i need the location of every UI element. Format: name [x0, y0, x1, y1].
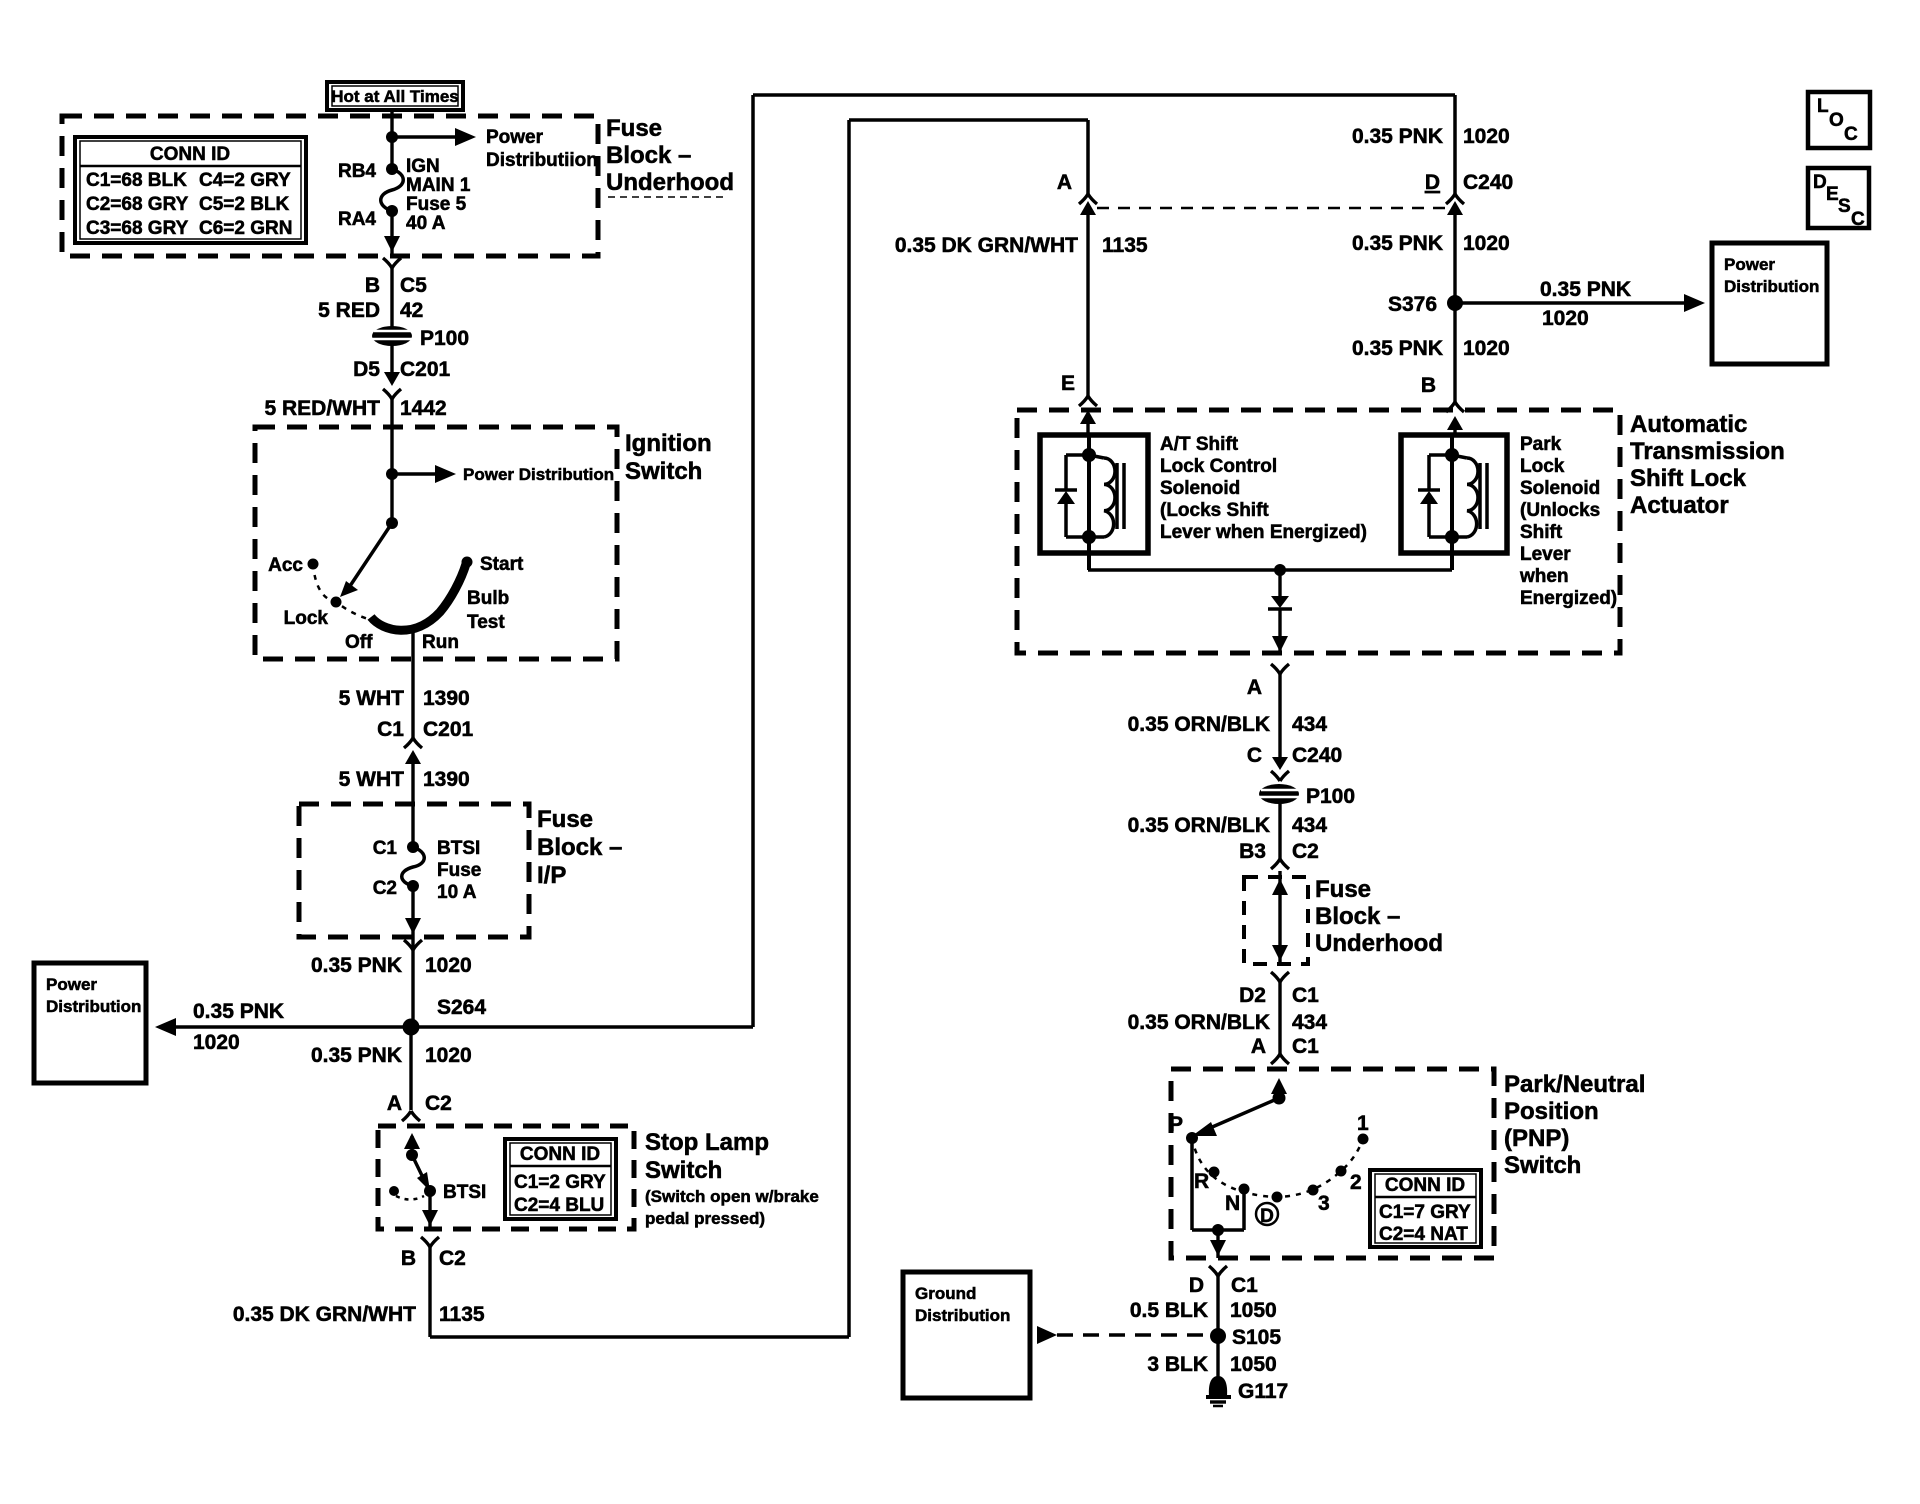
svg-text:0.35 ORN/BLK: 0.35 ORN/BLK: [1128, 713, 1270, 736]
fuse block IP box: [299, 804, 622, 937]
node N: [1225, 1184, 1250, 1216]
svg-text:C2=4 BLU: C2=4 BLU: [514, 1195, 604, 1216]
node 2: [1336, 1166, 1362, 1195]
svg-text:0.35 PNK: 0.35 PNK: [1540, 278, 1631, 301]
svg-text:I/P: I/P: [537, 862, 566, 889]
svg-text:Solenoid: Solenoid: [1160, 478, 1240, 499]
svg-text:Distribution: Distribution: [46, 997, 141, 1016]
svg-text:434: 434: [1292, 814, 1327, 837]
svg-text:Fuse: Fuse: [1315, 876, 1371, 903]
wire ignition output 5 WHT 1390: [339, 630, 474, 741]
svg-text:(Unlocks: (Unlocks: [1520, 500, 1600, 521]
svg-text:1390: 1390: [423, 687, 470, 710]
wire ground distribution dashed: [1037, 1326, 1211, 1344]
svg-text:Lever: Lever: [1520, 544, 1571, 565]
svg-text:40 A: 40 A: [406, 213, 446, 234]
connector C1 pin D ground: [1130, 1266, 1277, 1377]
wire power distribution branch underhood: [392, 127, 598, 171]
svg-text:0.35 ORN/BLK: 0.35 ORN/BLK: [1128, 814, 1270, 837]
node Hot at All Times: [327, 82, 463, 110]
svg-text:Position: Position: [1504, 1098, 1599, 1125]
svg-text:1390: 1390: [423, 768, 470, 791]
svg-text:Lever when Energized): Lever when Energized): [1160, 522, 1367, 543]
label park lock solenoid: [1519, 434, 1617, 609]
box DESC: [1808, 168, 1869, 230]
svg-text:C240: C240: [1463, 171, 1513, 194]
solenoid U2 park lock: [1401, 435, 1507, 570]
svg-text:A/T Shift: A/T Shift: [1160, 434, 1239, 455]
svg-text:D5: D5: [353, 358, 380, 381]
svg-text:1050: 1050: [1230, 1353, 1277, 1376]
node 3: [1308, 1185, 1330, 1216]
svg-text:Power: Power: [1724, 255, 1775, 274]
svg-text:5 WHT: 5 WHT: [339, 768, 405, 791]
svg-text:0.35 PNK: 0.35 PNK: [1352, 125, 1443, 148]
svg-text:CONN ID: CONN ID: [1385, 1175, 1465, 1196]
connector C240 pin D: [1352, 125, 1513, 215]
svg-text:C6=2 GRN: C6=2 GRN: [199, 218, 292, 239]
connector C201 pin C1: [339, 738, 470, 804]
wire fuse output: [384, 211, 400, 256]
wire P and N to output: [1192, 1138, 1244, 1258]
svg-text:Stop Lamp: Stop Lamp: [645, 1129, 769, 1156]
svg-text:0.5 BLK: 0.5 BLK: [1130, 1299, 1208, 1322]
svg-text:0.35 PNK: 0.35 PNK: [311, 1044, 402, 1067]
wire S376 to power distribution: [1455, 278, 1705, 330]
svg-text:D: D: [1813, 172, 1827, 193]
wire S376 down to B: [1352, 337, 1510, 397]
svg-text:Block –: Block –: [1315, 903, 1400, 930]
ignition switch box: [255, 427, 712, 659]
svg-text:5 RED: 5 RED: [318, 299, 380, 322]
svg-text:BTSI: BTSI: [437, 838, 480, 859]
connector pin E actuator: [1079, 396, 1097, 436]
connector C5 pin B: [318, 258, 427, 332]
svg-text:2: 2: [1350, 1171, 1362, 1194]
node D circled: [1256, 1192, 1283, 1228]
ground distribution box: [903, 1272, 1030, 1398]
connector C1 pin D2: [1128, 972, 1328, 1058]
svg-text:D: D: [1260, 1206, 1274, 1227]
connector C2 pin B stop lamp: [233, 1237, 485, 1337]
svg-text:1020: 1020: [1542, 307, 1589, 330]
svg-text:S: S: [1838, 196, 1851, 217]
label A/T shift lock control solenoid: [1160, 434, 1367, 543]
svg-text:1020: 1020: [1463, 337, 1510, 360]
svg-text:Solenoid: Solenoid: [1520, 478, 1600, 499]
wire 1135 run to right riser: [430, 120, 1088, 1337]
svg-text:0.35 PNK: 0.35 PNK: [1352, 337, 1443, 360]
svg-text:Shift: Shift: [1520, 522, 1563, 543]
svg-text:1020: 1020: [193, 1031, 240, 1054]
wire through fuse block small: [1272, 871, 1288, 963]
svg-text:RA4: RA4: [338, 209, 376, 230]
wire P100 to fuse block 434: [1128, 803, 1328, 863]
svg-text:S376: S376: [1388, 293, 1437, 316]
ignition switch wiper: [340, 517, 398, 597]
svg-text:Power: Power: [46, 975, 97, 994]
wire S264 to left power distribution: [155, 1000, 411, 1054]
svg-text:C1=2 GRY: C1=2 GRY: [514, 1172, 606, 1193]
svg-text:IGN: IGN: [406, 156, 440, 177]
fuse BTSI 10A: [373, 804, 482, 903]
wire C240 dashed connector line: [1097, 207, 1445, 210]
svg-text:C1: C1: [377, 718, 404, 741]
node Start: [462, 554, 524, 575]
svg-text:Energized): Energized): [1520, 588, 1617, 609]
svg-text:P100: P100: [420, 327, 469, 350]
svg-text:Power: Power: [486, 127, 544, 148]
ground G117: [1206, 1376, 1288, 1406]
table CONN ID stop lamp: [505, 1139, 616, 1219]
svg-text:(Switch open w/brake: (Switch open w/brake: [645, 1187, 819, 1206]
svg-text:Ignition: Ignition: [625, 430, 712, 457]
svg-text:Test: Test: [467, 612, 505, 633]
connector C1 pin A pnp: [1271, 1054, 1289, 1064]
svg-text:3 BLK: 3 BLK: [1147, 1353, 1208, 1376]
wire hot feed into fuse block: [386, 109, 398, 169]
svg-text:Fuse: Fuse: [606, 115, 662, 142]
svg-text:434: 434: [1292, 713, 1327, 736]
svg-text:B: B: [401, 1247, 416, 1270]
svg-text:Fuse: Fuse: [437, 860, 481, 881]
svg-text:B: B: [1421, 374, 1436, 397]
svg-text:Underhood: Underhood: [1315, 930, 1443, 957]
svg-text:CONN ID: CONN ID: [150, 144, 230, 165]
svg-text:C: C: [1844, 124, 1858, 145]
svg-text:S105: S105: [1232, 1326, 1281, 1349]
stop lamp switch contacts: [389, 1133, 486, 1203]
fuse block underhood box: [62, 115, 734, 256]
svg-text:RB4: RB4: [338, 161, 376, 182]
svg-text:C1: C1: [1292, 1035, 1319, 1058]
node S376: [1388, 293, 1463, 316]
svg-text:Acc: Acc: [268, 555, 303, 576]
connector P100 right: [1259, 784, 1355, 808]
fuse IGN MAIN 1 Fuse 5 40 A: [338, 156, 471, 234]
svg-text:P: P: [1169, 1113, 1183, 1136]
svg-text:A: A: [1247, 676, 1262, 699]
svg-text:Distribution: Distribution: [1724, 277, 1819, 296]
power distribution box left: [34, 963, 146, 1083]
svg-text:C1=7 GRY: C1=7 GRY: [1379, 1202, 1471, 1223]
ignition detent arc dashed: [313, 564, 368, 619]
svg-text:Actuator: Actuator: [1630, 492, 1729, 519]
wire A to E 0.35 DK GRN/WHT 1135: [895, 213, 1148, 396]
svg-text:Lock: Lock: [1520, 456, 1565, 477]
node Lock: [284, 597, 342, 630]
svg-text:1: 1: [1357, 1112, 1369, 1135]
svg-text:1020: 1020: [425, 1044, 472, 1067]
svg-text:C4=2 GRY: C4=2 GRY: [199, 170, 291, 191]
svg-text:Distributiion: Distributiion: [486, 150, 598, 171]
svg-text:C3=68 GRY: C3=68 GRY: [86, 218, 189, 239]
svg-text:C5: C5: [400, 274, 427, 297]
node S105: [1147, 1326, 1281, 1376]
svg-text:1020: 1020: [1463, 232, 1510, 255]
table CONN ID pnp: [1370, 1170, 1481, 1247]
label Bulb Test: [467, 588, 509, 633]
svg-text:C2: C2: [373, 878, 397, 899]
svg-text:Fuse: Fuse: [537, 806, 593, 833]
node R: [1194, 1167, 1220, 1194]
svg-text:C: C: [1851, 209, 1865, 230]
pnp detent arc dashed: [1192, 1138, 1363, 1197]
svg-text:P100: P100: [1306, 785, 1355, 808]
actuator box: [1017, 410, 1785, 653]
svg-text:Switch: Switch: [625, 458, 702, 485]
svg-text:O: O: [1829, 110, 1844, 131]
svg-text:C1: C1: [1292, 984, 1319, 1007]
node P: [1169, 1113, 1198, 1144]
connector C240 pin C: [1271, 757, 1289, 781]
connector C2 pin B3: [1271, 859, 1289, 869]
svg-text:1050: 1050: [1230, 1299, 1277, 1322]
svg-text:C2: C2: [439, 1247, 466, 1270]
svg-text:D: D: [1189, 1274, 1204, 1297]
svg-text:Off: Off: [345, 632, 373, 653]
svg-text:Bulb: Bulb: [467, 588, 509, 609]
svg-text:C201: C201: [423, 718, 474, 741]
table CONN ID underhood: [75, 137, 306, 243]
wire D to S376: [1352, 213, 1510, 402]
svg-text:Hot at All Times: Hot at All Times: [331, 87, 459, 106]
connector C2 pin A stop lamp: [402, 1111, 420, 1121]
node 1: [1357, 1112, 1369, 1145]
wire S264 down 0.35 PNK 1020: [311, 1027, 472, 1115]
node Acc: [268, 555, 318, 576]
svg-text:(PNP): (PNP): [1504, 1125, 1569, 1152]
svg-text:N: N: [1225, 1192, 1240, 1215]
solenoid U1 A/T shift lock control: [1040, 435, 1148, 570]
svg-text:Power Distribution: Power Distribution: [463, 465, 614, 484]
wire power distribution branch ignition: [392, 465, 614, 484]
connector pin B actuator: [1446, 402, 1464, 436]
svg-text:0.35 DK GRN/WHT: 0.35 DK GRN/WHT: [233, 1303, 416, 1326]
svg-text:Lock: Lock: [284, 608, 329, 629]
svg-text:0.35 DK GRN/WHT: 0.35 DK GRN/WHT: [895, 234, 1078, 257]
fuse block underhood small box: [1244, 876, 1443, 964]
svg-text:Switch: Switch: [1504, 1152, 1581, 1179]
svg-text:CONN ID: CONN ID: [520, 1144, 600, 1165]
svg-text:Park/Neutral: Park/Neutral: [1504, 1071, 1645, 1098]
svg-text:A: A: [1251, 1035, 1266, 1058]
wire 5 RED/WHT 1442: [353, 345, 450, 381]
svg-text:when: when: [1519, 566, 1569, 587]
connector C201 pin D5: [265, 372, 447, 427]
svg-text:C2: C2: [425, 1092, 452, 1115]
svg-text:5 RED/WHT: 5 RED/WHT: [265, 397, 381, 420]
wire ignition feed: [386, 427, 398, 523]
svg-text:0.35 PNK: 0.35 PNK: [311, 954, 402, 977]
svg-text:1135: 1135: [439, 1303, 485, 1326]
pnp switch box: [1171, 1069, 1645, 1258]
diode D1: [1268, 570, 1292, 653]
svg-text:Block –: Block –: [537, 834, 622, 861]
svg-text:42: 42: [400, 299, 423, 322]
svg-text:L: L: [1817, 96, 1829, 117]
svg-text:C5=2 BLK: C5=2 BLK: [199, 194, 290, 215]
svg-text:3: 3: [1318, 1192, 1330, 1215]
svg-text:Automatic: Automatic: [1630, 411, 1747, 438]
svg-text:A: A: [387, 1092, 402, 1115]
svg-text:Start: Start: [480, 554, 524, 575]
svg-text:MAIN 1: MAIN 1: [406, 175, 471, 196]
svg-text:C1: C1: [1231, 1274, 1258, 1297]
svg-text:0.35 PNK: 0.35 PNK: [193, 1000, 284, 1023]
svg-text:G117: G117: [1238, 1380, 1288, 1403]
svg-text:1020: 1020: [1463, 125, 1510, 148]
svg-text:Run: Run: [422, 632, 459, 653]
svg-text:Ground: Ground: [915, 1284, 976, 1303]
pnp switch wiper: [1192, 1078, 1287, 1136]
connector P100: [372, 326, 469, 350]
svg-text:Transmission: Transmission: [1630, 438, 1785, 465]
svg-text:A: A: [1057, 171, 1072, 194]
svg-text:Distribution: Distribution: [915, 1306, 1010, 1325]
svg-text:434: 434: [1292, 1011, 1327, 1034]
svg-text:R: R: [1194, 1170, 1209, 1193]
svg-text:(Locks Shift: (Locks Shift: [1160, 500, 1269, 521]
svg-text:C1=68 BLK: C1=68 BLK: [86, 170, 187, 191]
box LOC: [1808, 92, 1870, 148]
svg-text:C: C: [1247, 744, 1262, 767]
svg-text:C2: C2: [1292, 840, 1319, 863]
svg-text:1442: 1442: [400, 397, 447, 420]
svg-text:Fuse 5: Fuse 5: [406, 194, 467, 215]
svg-text:C2=4 NAT: C2=4 NAT: [1379, 1224, 1468, 1245]
svg-text:C240: C240: [1292, 744, 1342, 767]
svg-text:E: E: [1061, 372, 1075, 395]
svg-text:1135: 1135: [1102, 234, 1148, 257]
svg-text:S264: S264: [437, 996, 486, 1019]
svg-text:D2: D2: [1239, 984, 1266, 1007]
ignition run-start arc: [371, 564, 466, 630]
node S264: [403, 996, 487, 1036]
svg-text:10 A: 10 A: [437, 882, 477, 903]
svg-text:1020: 1020: [425, 954, 472, 977]
svg-text:E: E: [1826, 184, 1839, 205]
wire stop lamp output: [422, 1191, 438, 1229]
svg-text:Underhood: Underhood: [606, 169, 734, 196]
wire BTSI fuse output: [311, 886, 472, 1027]
svg-text:Park: Park: [1520, 434, 1562, 455]
stop lamp switch box: [378, 1126, 819, 1229]
svg-text:pedal pressed): pedal pressed): [645, 1209, 765, 1228]
svg-text:B3: B3: [1239, 840, 1266, 863]
svg-text:0.35 PNK: 0.35 PNK: [1352, 232, 1443, 255]
svg-text:C201: C201: [400, 358, 451, 381]
connector C240 pin A: [1057, 171, 1097, 215]
svg-text:Lock Control: Lock Control: [1160, 456, 1277, 477]
svg-text:BTSI: BTSI: [443, 1182, 486, 1203]
svg-text:Shift Lock: Shift Lock: [1630, 465, 1747, 492]
svg-text:Block –: Block –: [606, 142, 691, 169]
svg-text:C2=68 GRY: C2=68 GRY: [86, 194, 189, 215]
svg-text:B: B: [365, 274, 380, 297]
wire 1020 run to right riser: [411, 95, 1455, 1027]
connector pin A actuator output: [1128, 664, 1343, 767]
svg-text:5 WHT: 5 WHT: [339, 687, 405, 710]
svg-text:0.35 ORN/BLK: 0.35 ORN/BLK: [1128, 1011, 1270, 1034]
svg-text:C1: C1: [373, 838, 398, 859]
svg-text:D: D: [1425, 171, 1440, 194]
power distribution box right: [1712, 243, 1827, 364]
wire solenoid bus: [1088, 564, 1452, 576]
svg-text:Switch: Switch: [645, 1157, 722, 1184]
